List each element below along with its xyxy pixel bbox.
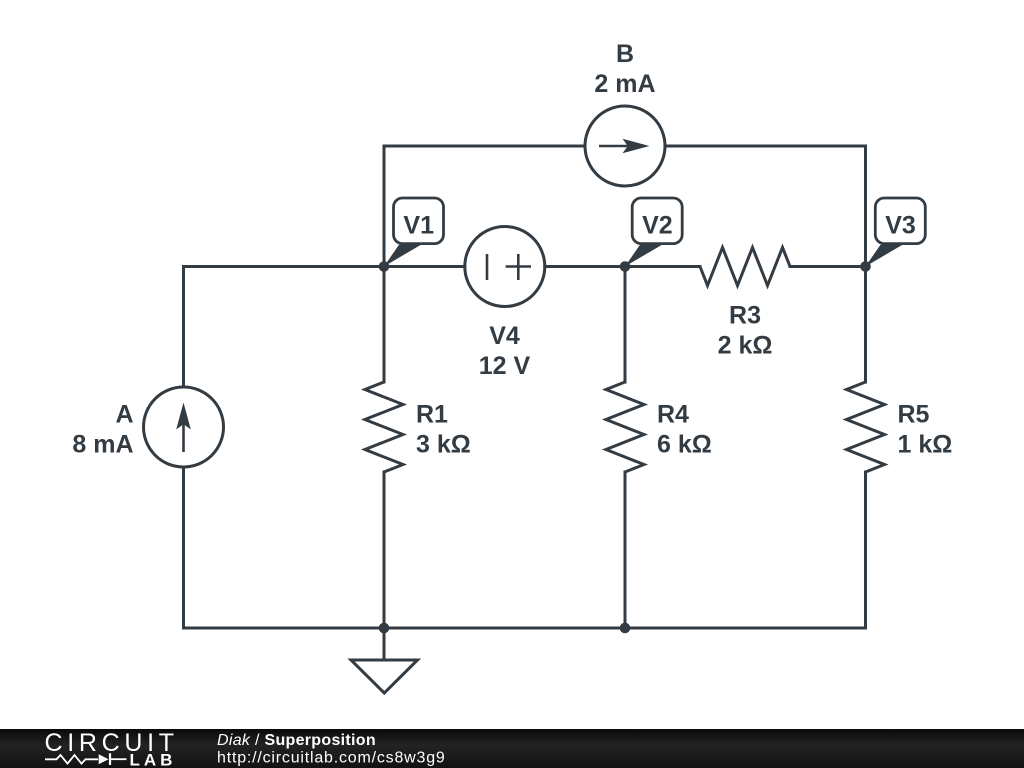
voltage source V4 bbox=[465, 227, 545, 307]
resistor R3 bbox=[700, 248, 790, 286]
wire V1 node to R1 bbox=[383, 267, 386, 383]
junction dot V3 bbox=[860, 261, 871, 272]
svg-text:V4: V4 bbox=[489, 322, 520, 350]
wire bottom rail bbox=[184, 627, 866, 630]
label R1 3 kΩ bbox=[416, 401, 471, 459]
svg-text:R1: R1 bbox=[416, 401, 448, 429]
wire R4 to bottom rail bbox=[624, 472, 627, 628]
wire V3 node to R5 bbox=[864, 267, 867, 383]
svg-text:B: B bbox=[616, 40, 634, 68]
wire ground stem bbox=[383, 628, 386, 660]
node V2 flag bbox=[625, 198, 682, 267]
svg-text:R3: R3 bbox=[729, 302, 761, 330]
svg-text:http://circuitlab.com/cs8w3g9: http://circuitlab.com/cs8w3g9 bbox=[217, 750, 446, 767]
resistor R1 bbox=[365, 382, 403, 472]
label R5 1 kΩ bbox=[898, 401, 953, 459]
junction dot bottom-mid bbox=[620, 623, 631, 634]
wire top-left vertical (V1 node to top rail) bbox=[383, 146, 386, 267]
logo diode symbol bbox=[99, 754, 109, 764]
wire left rail upper (corner to A) bbox=[182, 267, 185, 388]
wire R5 to bottom rail bbox=[864, 472, 867, 628]
svg-text:2 mA: 2 mA bbox=[594, 70, 655, 98]
label R4 6 kΩ bbox=[657, 401, 712, 459]
svg-text:R4: R4 bbox=[657, 401, 689, 429]
node V3 flag bbox=[866, 198, 926, 267]
wire left rail lower (A to bottom rail) bbox=[182, 467, 185, 628]
svg-text:R5: R5 bbox=[898, 401, 930, 429]
svg-text:8 mA: 8 mA bbox=[72, 431, 133, 459]
label V4 12 V bbox=[479, 322, 531, 380]
svg-text:V3: V3 bbox=[885, 211, 916, 239]
label R3 2 kΩ bbox=[718, 302, 773, 360]
svg-text:3 kΩ: 3 kΩ bbox=[416, 431, 471, 459]
logo resistor symbol bbox=[45, 755, 98, 764]
node V1 flag bbox=[384, 198, 444, 267]
svg-text:12 V: 12 V bbox=[479, 352, 531, 380]
current source B bbox=[585, 106, 665, 186]
svg-text:LAB: LAB bbox=[130, 751, 177, 768]
wire top-right vertical (top rail to V3 node) bbox=[864, 146, 867, 267]
footer bar bbox=[0, 729, 1024, 768]
junction dot bottom-left bbox=[379, 623, 390, 634]
svg-text:1 kΩ: 1 kΩ bbox=[898, 431, 953, 459]
wire top rail left of B bbox=[384, 145, 585, 148]
junction dot V2 bbox=[620, 261, 631, 272]
current source A bbox=[144, 387, 224, 467]
wire V1 node to V4 bbox=[384, 265, 465, 268]
wire V4 to V2 node bbox=[545, 265, 625, 268]
ground bbox=[351, 660, 418, 693]
wire R1 to bottom rail bbox=[383, 472, 386, 628]
resistor R5 bbox=[847, 382, 885, 472]
junction dot V1 bbox=[379, 261, 390, 272]
wire R3 to V3 node bbox=[790, 265, 866, 268]
svg-text:Diak / Superposition: Diak / Superposition bbox=[217, 732, 376, 749]
svg-text:V1: V1 bbox=[403, 211, 434, 239]
wire V2 node to R3 bbox=[625, 265, 700, 268]
svg-text:2 kΩ: 2 kΩ bbox=[718, 332, 773, 360]
svg-text:6 kΩ: 6 kΩ bbox=[657, 431, 712, 459]
wire middle rail left (corner to V1 node) bbox=[184, 265, 385, 268]
resistor R4 bbox=[606, 382, 644, 472]
wire top rail right of B bbox=[665, 145, 866, 148]
wire V2 node to R4 bbox=[624, 267, 627, 383]
svg-text:V2: V2 bbox=[642, 211, 673, 239]
svg-text:A: A bbox=[115, 401, 133, 429]
label B 2 mA bbox=[594, 40, 655, 98]
label A 8 mA bbox=[72, 401, 133, 459]
